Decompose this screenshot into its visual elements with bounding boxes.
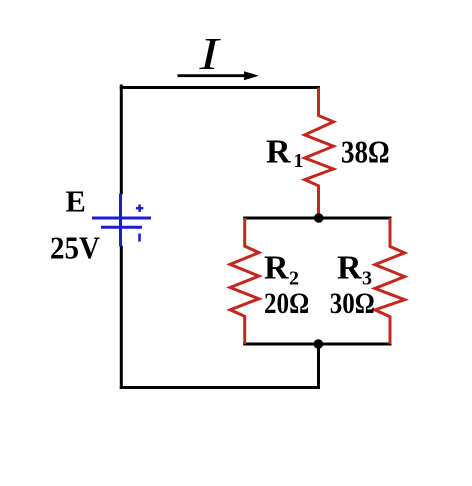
svg-text:1: 1 — [294, 150, 304, 172]
svg-text:R: R — [266, 133, 291, 170]
svg-text:25V: 25V — [50, 230, 100, 266]
svg-text:E: E — [66, 185, 86, 219]
svg-text:38Ω: 38Ω — [341, 134, 390, 169]
svg-text:I: I — [198, 28, 222, 79]
svg-text:30Ω: 30Ω — [330, 287, 375, 320]
svg-text:20Ω: 20Ω — [264, 287, 309, 320]
svg-text:R: R — [337, 250, 362, 287]
svg-text:R: R — [264, 250, 289, 287]
